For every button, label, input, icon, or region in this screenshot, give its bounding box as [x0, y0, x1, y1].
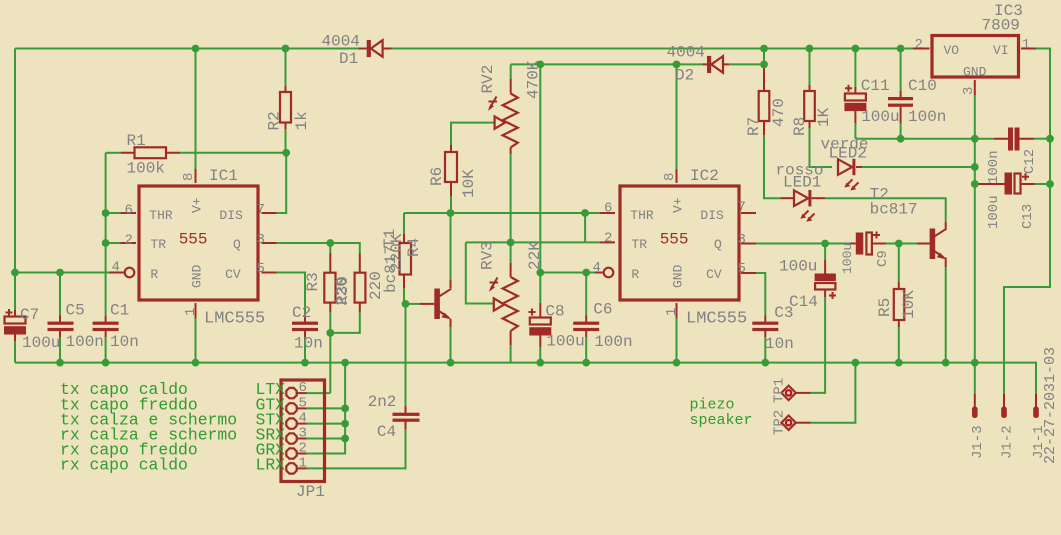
connector JP1 box [281, 380, 325, 482]
svg-text:8: 8 [662, 173, 678, 181]
svg-text:100u: 100u [986, 195, 1002, 229]
capacitor C2 [292, 322, 318, 332]
svg-text:6: 6 [299, 380, 307, 396]
label IC1 555 [179, 231, 208, 249]
svg-text:RV3: RV3 [479, 241, 497, 270]
label RV2 name rotated [479, 65, 497, 94]
svg-text:R4: R4 [405, 238, 423, 257]
diode D1 [359, 40, 392, 57]
wire IC1 pin1 to ground [195, 303, 197, 363]
svg-text:4: 4 [299, 411, 307, 427]
trimmer RV3 [489, 277, 518, 331]
testpoint TP1 [781, 386, 795, 400]
svg-text:6: 6 [604, 201, 612, 217]
label C2 name [292, 304, 311, 322]
label JP1 pin numbers [299, 380, 307, 471]
svg-text:LMC555: LMC555 [686, 310, 747, 329]
svg-text:7: 7 [738, 200, 746, 216]
junction dots JP1 riser [341, 405, 349, 443]
label IC2 pin numbers [593, 173, 746, 316]
svg-text:1K: 1K [815, 107, 833, 127]
label C5 name [66, 302, 85, 320]
wire C5 stubs [59, 273, 61, 363]
wire RV2 bottom riser [510, 148, 512, 243]
resistor R1 [135, 147, 167, 158]
svg-text:TR: TR [150, 237, 166, 252]
label IC3 pin numbers [915, 37, 1031, 95]
svg-text:R1: R1 [127, 132, 146, 150]
svg-text:5: 5 [299, 395, 307, 411]
svg-text:C11: C11 [861, 77, 890, 95]
wire IC1 pin8 riser [195, 49, 197, 184]
capacitor C10 [888, 97, 913, 107]
resistor R30 [355, 273, 366, 303]
resistor R3 [324, 273, 335, 303]
svg-text:R6: R6 [428, 167, 446, 186]
svg-text:1: 1 [664, 308, 680, 316]
wire TR row IC2 [466, 241, 615, 243]
wire C14 top [824, 244, 826, 274]
svg-text:100n: 100n [986, 150, 1002, 184]
junction dots ground rail [56, 359, 979, 367]
svg-text:R3: R3 [304, 272, 322, 291]
svg-text:DIS: DIS [700, 208, 724, 223]
svg-text:7: 7 [257, 202, 265, 218]
svg-text:5: 5 [257, 261, 265, 277]
svg-text:555: 555 [179, 231, 208, 249]
wire THR row IC1 [106, 212, 136, 214]
wire C9 right to T2 base [872, 243, 930, 245]
svg-text:RV2: RV2 [479, 65, 497, 94]
wire R5 bottom [898, 320, 900, 363]
label C10 value 100n [908, 108, 946, 126]
label C13 value 100u rotated [986, 195, 1002, 229]
svg-text:TP2: TP2 [772, 410, 788, 435]
transistor T2 [930, 229, 947, 260]
label C6 value 100n [594, 333, 632, 351]
wire net after D1 row y64 [511, 63, 764, 65]
wire R7 top [763, 64, 765, 91]
svg-text:C12: C12 [1022, 149, 1038, 174]
pin J1-1 [1033, 394, 1039, 418]
svg-text:100u: 100u [546, 333, 584, 351]
label C13 name rotated [1020, 204, 1036, 229]
label R4 name rotated [405, 238, 423, 257]
svg-text:D2: D2 [675, 67, 694, 85]
wire C8 R-row riser [539, 64, 541, 272]
label IC3 name [994, 2, 1023, 20]
label T2 name [870, 185, 889, 203]
wire IC2 pin1 to ground [676, 303, 678, 363]
svg-text:1k: 1k [293, 111, 311, 130]
label C8 name [545, 302, 564, 320]
wire CV row IC1 to C2 [262, 273, 306, 322]
junction dots y64 net [536, 61, 768, 69]
resistor R2 [280, 92, 291, 123]
wire R8 bottom to LED2 [810, 121, 833, 167]
resistor R7 [759, 91, 770, 121]
label C6 name [593, 301, 612, 319]
capacitor C7 [4, 309, 26, 335]
svg-text:GND: GND [963, 65, 987, 80]
label IC3 value 7809 [982, 17, 1020, 35]
label LED2 name [829, 145, 867, 163]
svg-text:speaker: speaker [690, 412, 753, 429]
svg-text:10K: 10K [460, 169, 478, 198]
svg-text:C1: C1 [110, 302, 129, 320]
wire C4 riser LRX [297, 304, 406, 469]
label R1 value 100k [127, 159, 165, 177]
regulator IC3 box [913, 36, 1036, 78]
svg-text:1: 1 [183, 308, 199, 316]
label IC1 pin numbers [112, 173, 265, 316]
label R30 value 220 rotated [367, 271, 385, 300]
svg-text:100n: 100n [66, 333, 104, 351]
wire C12 row [975, 138, 1050, 140]
svg-text:R: R [631, 267, 639, 282]
label C7 name [20, 306, 39, 324]
svg-text:THR: THR [630, 208, 654, 223]
svg-text:LED2: LED2 [829, 145, 867, 163]
svg-text:LED1: LED1 [783, 174, 821, 192]
wire R7 bottom to LED1 [764, 121, 780, 198]
svg-text:TR: TR [631, 237, 647, 252]
svg-text:C9: C9 [875, 250, 891, 267]
svg-text:bc817: bc817 [870, 201, 918, 219]
svg-text:3: 3 [257, 232, 265, 248]
wire R6 top to RV2 wiper [451, 123, 495, 152]
wire C14 bottom to TP1 [795, 290, 825, 393]
wire RV3 top stub [510, 242, 512, 277]
svg-text:10n: 10n [294, 335, 323, 353]
wire Q row IC2 [741, 243, 856, 245]
wire T1 emitter to ground [450, 319, 452, 363]
svg-text:1: 1 [299, 455, 307, 471]
svg-text:6: 6 [125, 203, 133, 219]
LED LED1 [794, 190, 815, 222]
label C9 value 100u rotated [840, 243, 855, 274]
svg-text:Q: Q [714, 237, 722, 252]
label C11 name [861, 77, 890, 95]
svg-text:22K: 22K [526, 241, 544, 270]
wire C6 stubs [585, 273, 587, 363]
wire ground rail [15, 363, 1036, 394]
svg-text:4004: 4004 [322, 32, 360, 50]
svg-text:100n: 100n [908, 108, 946, 126]
wire T1 collector riser [450, 213, 452, 288]
svg-text:GND: GND [190, 264, 205, 288]
svg-text:C13: C13 [1020, 204, 1036, 229]
testpoint TP2 [781, 416, 795, 430]
svg-text:V+: V+ [671, 197, 686, 213]
svg-text:VO: VO [944, 43, 960, 58]
svg-text:5: 5 [738, 261, 746, 277]
label R1 name [127, 132, 146, 150]
svg-text:4004: 4004 [667, 44, 705, 62]
wire R4 top [403, 213, 405, 243]
label C10 name [908, 77, 937, 95]
svg-text:4: 4 [593, 260, 601, 276]
label D1 name [339, 50, 358, 68]
label IC2 name [690, 167, 719, 185]
label R3 name rotated [304, 272, 322, 291]
wire DIS riser IC1 [262, 153, 287, 213]
label D1 value 4004 [322, 32, 360, 50]
label R4 value 220K rotated [388, 233, 406, 272]
wire LED1 cathode to T2 collector [812, 198, 946, 229]
label C1 name [110, 302, 129, 320]
label D2 name [675, 67, 694, 85]
label LED2 verde [821, 136, 869, 154]
capacitor C1 [93, 322, 119, 332]
junction dots top rail [192, 45, 905, 53]
capacitor C4 [393, 413, 420, 422]
svg-text:10K: 10K [900, 290, 918, 319]
svg-text:C6: C6 [593, 301, 612, 319]
svg-text:C2: C2 [292, 304, 311, 322]
svg-text:DIS: DIS [219, 208, 243, 223]
svg-text:C14: C14 [789, 293, 818, 311]
svg-text:3: 3 [738, 232, 746, 248]
wire R8 top [809, 49, 811, 92]
wire R row IC2 [540, 272, 603, 274]
label C9 name rotated [875, 250, 891, 267]
svg-text:470K: 470K [525, 60, 543, 99]
resistor R5 [894, 289, 905, 320]
capacitor C3 [752, 322, 778, 332]
wire C2 bottom [304, 330, 306, 362]
label IC1 LMC555 [204, 310, 265, 329]
wire Q row IC1 [262, 242, 331, 244]
transistor T1 [434, 289, 451, 320]
wire R6 riser [450, 182, 452, 213]
wire R2 bottom [285, 123, 287, 153]
svg-text:C8: C8 [545, 302, 564, 320]
wire IC2 pin7 stub [741, 212, 756, 214]
label TP2 rotated [772, 410, 788, 435]
wire GND vertical right [974, 139, 976, 363]
svg-text:100u: 100u [840, 243, 855, 274]
svg-text:CV: CV [706, 267, 722, 282]
wire R30 bottom [330, 303, 360, 333]
wire R5 riser [898, 244, 900, 290]
label R6 value 10K rotated [460, 169, 478, 198]
label D2 value 4004 [667, 44, 705, 62]
wire VI route [1004, 49, 1050, 395]
svg-text:R: R [150, 267, 158, 282]
op-amp IC2 555 box [604, 186, 739, 300]
capacitor C13 [1005, 173, 1030, 195]
label T2 value bc817 [870, 201, 918, 219]
label JP1 name [296, 483, 325, 501]
label R6 name rotated [428, 167, 446, 186]
label R5 name rotated [876, 298, 894, 317]
label RV3 name rotated [479, 241, 497, 270]
wire TR row IC1 [106, 242, 136, 244]
label IC2 LMC555 [686, 310, 747, 329]
label IC1 name [209, 167, 238, 185]
label R8 value 1K rotated [815, 107, 833, 127]
wire LTX riser [329, 333, 331, 393]
wire J1-3 riser [974, 363, 976, 394]
label C11 value 100u [861, 108, 899, 126]
svg-text:470: 470 [770, 98, 788, 127]
svg-text:VI: VI [993, 43, 1009, 58]
junction dots IC1 area [11, 149, 290, 276]
svg-text:Q: Q [233, 237, 241, 252]
svg-text:2: 2 [299, 440, 307, 456]
trimmer RV2 [488, 94, 518, 148]
svg-text:R7: R7 [745, 117, 763, 136]
wire link top rail to y64 [763, 49, 765, 65]
svg-text:100u: 100u [779, 258, 817, 276]
wire C1 stubs [105, 330, 107, 362]
svg-text:2: 2 [604, 231, 612, 247]
label C4 name [377, 423, 396, 441]
svg-text:1: 1 [1022, 37, 1030, 53]
node net names LTX GTX STX SRX GRX LRX [256, 380, 286, 474]
capacitor C14 [815, 274, 836, 300]
svg-text:100u: 100u [22, 334, 60, 352]
label C12 value 100n rotated [986, 150, 1002, 184]
svg-text:CV: CV [225, 267, 241, 282]
svg-text:3: 3 [961, 87, 977, 95]
label R5 value 10K rotated [900, 290, 918, 319]
op-amp IC1 555 box [125, 186, 258, 300]
wire RV3 wiper loop [466, 242, 494, 303]
node harness labels [60, 380, 237, 474]
wire R3 bottom [329, 303, 331, 333]
svg-text:V+: V+ [190, 197, 205, 213]
wire C13 row [975, 183, 1050, 185]
diode D2 [703, 56, 730, 73]
svg-text:TP1: TP1 [772, 378, 788, 403]
svg-text:R30: R30 [334, 276, 352, 305]
label J1-2 rotated [1000, 425, 1016, 459]
label IC1 pin names [149, 197, 243, 288]
wire IC3 pin3 stub [974, 80, 976, 139]
junction dots right column [897, 135, 1054, 188]
wire THR-TR link IC2 [584, 213, 586, 242]
wire left VCC vertical [14, 49, 16, 273]
wire C8 stubs [539, 273, 541, 363]
wire RV3 bottom [510, 331, 512, 363]
connector JP1 pads [286, 388, 296, 474]
svg-text:10n: 10n [110, 333, 139, 351]
junction dots IC2 area [326, 209, 902, 337]
svg-text:THR: THR [149, 208, 173, 223]
label R7 value 470 rotated [770, 98, 788, 127]
wire R3 top stub [329, 243, 331, 273]
capacitor C5 [48, 322, 74, 332]
svg-text:LMC555: LMC555 [204, 310, 265, 329]
wire JP1 pin4 row [297, 423, 346, 425]
wire JP1 ground riser [297, 363, 346, 454]
wire THR TR left vertical [105, 153, 107, 322]
svg-text:J1-3: J1-3 [970, 425, 986, 459]
wire R row IC1 [15, 272, 124, 274]
wire LED1 anode stub [780, 197, 794, 199]
svg-text:IC2: IC2 [690, 167, 719, 185]
label RV2 value 470K rotated [525, 60, 543, 99]
svg-text:220: 220 [367, 271, 385, 300]
svg-text:555: 555 [660, 231, 689, 249]
svg-text:C5: C5 [66, 302, 85, 320]
label T1 name rotated [381, 229, 399, 248]
label R2 name rotated [266, 111, 284, 130]
wire GND row under IC3 [855, 138, 974, 140]
label C14 value 100u [779, 258, 817, 276]
label piezo speaker [690, 397, 753, 429]
wire T2 emitter to ground [945, 258, 947, 363]
resistor R4 [400, 243, 412, 275]
svg-text:R2: R2 [266, 111, 284, 130]
svg-text:LRX: LRX [256, 455, 286, 474]
svg-text:D1: D1 [339, 50, 358, 68]
wire C10 stubs [900, 49, 902, 139]
svg-text:8: 8 [181, 173, 197, 181]
label C2 value 10n [294, 335, 323, 353]
svg-text:22-27-2031-03: 22-27-2031-03 [1042, 347, 1059, 464]
wire C3 bottom [764, 330, 766, 362]
label IC2 555 [660, 231, 689, 249]
wire VCC top rail [15, 48, 913, 50]
label TP1 rotated [772, 378, 788, 403]
pin J1-3 [972, 394, 978, 418]
svg-text:3: 3 [299, 425, 307, 441]
wire THR row IC2 [404, 212, 615, 214]
svg-text:C4: C4 [377, 423, 396, 441]
label R7 name rotated [745, 117, 763, 136]
label T1 value bc817 rotated [382, 245, 400, 293]
wire JP1 pin6 row [297, 392, 331, 394]
wire IC2 pin8 riser [676, 64, 678, 183]
label C7 value 100u [22, 334, 60, 352]
wire T1 base [406, 303, 435, 305]
label C1 value 10n [110, 333, 139, 351]
label C14 name [789, 293, 818, 311]
label R3 value 220 rotated [333, 277, 351, 306]
svg-text:rx capo caldo: rx capo caldo [60, 455, 188, 474]
label C3 name [774, 304, 793, 322]
label C4 value 2n2 [368, 393, 397, 411]
label C5 value 100n [66, 333, 104, 351]
wire TP2 to ground [795, 363, 855, 423]
label IC2 pin names [630, 197, 724, 288]
svg-text:100k: 100k [127, 159, 165, 177]
label R30 name rotated [334, 276, 352, 305]
svg-text:100u: 100u [861, 108, 899, 126]
capacitor C6 [573, 322, 599, 332]
svg-text:JP1: JP1 [296, 483, 325, 501]
pin J1-2 [1001, 394, 1007, 418]
capacitor C11 [844, 85, 866, 111]
svg-text:C7: C7 [20, 306, 39, 324]
wire CV row IC2 to C3 [741, 273, 765, 322]
svg-text:IC1: IC1 [209, 167, 238, 185]
wire RV2 top link [510, 64, 512, 93]
LED LED2 [838, 159, 859, 191]
capacitor C8 [529, 309, 552, 336]
svg-text:GND: GND [671, 264, 686, 288]
label J1-3 rotated [970, 425, 986, 459]
label C12 name rotated [1022, 149, 1038, 174]
svg-text:2: 2 [915, 37, 923, 53]
label LED1 name [783, 174, 821, 192]
wire C11 stubs [854, 49, 856, 139]
wire R2 top [285, 49, 287, 93]
svg-text:R8: R8 [791, 117, 809, 136]
